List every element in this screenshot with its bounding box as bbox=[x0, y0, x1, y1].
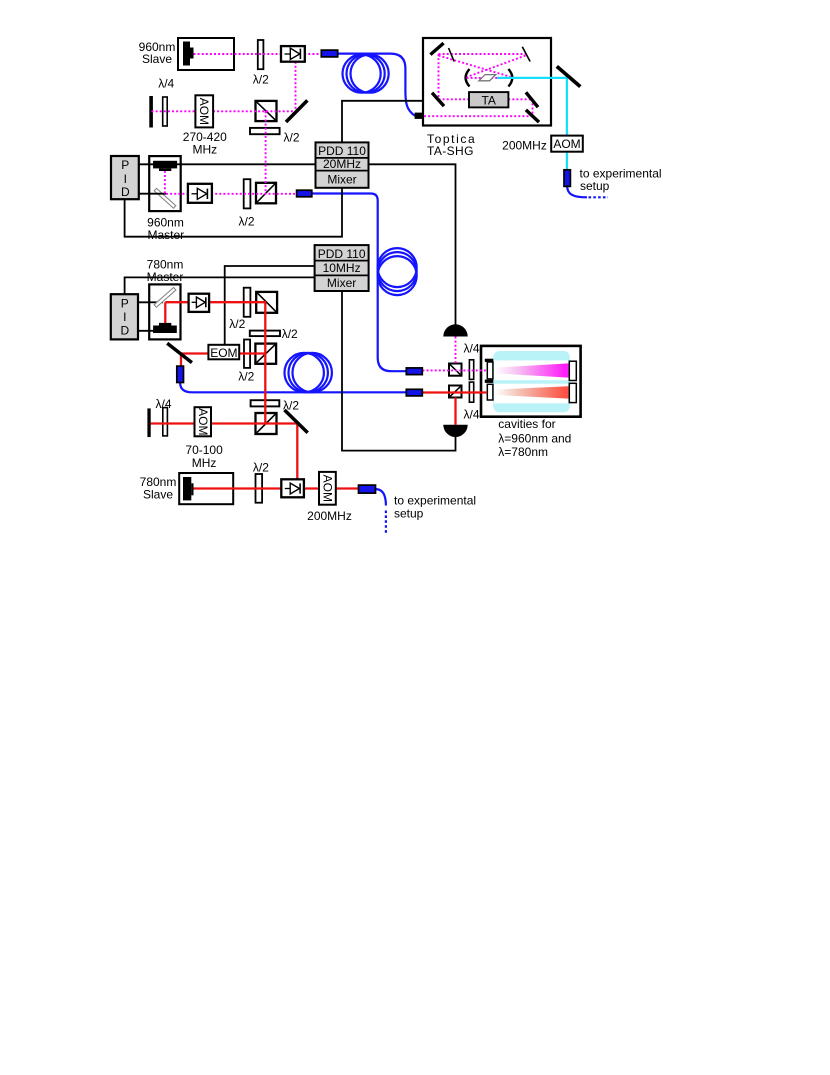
wire PID2 top to PDD2 mixer bbox=[125, 277, 315, 294]
PDD 110 10MHz Mixer module bbox=[315, 245, 369, 291]
cavity mode 780nm bbox=[495, 386, 569, 398]
svg-text:200MHz: 200MHz bbox=[502, 139, 547, 153]
AOM 200MHz 480nm bbox=[551, 136, 583, 152]
beam 780nm to cavity bbox=[422, 391, 487, 393]
waveplate λ/2 slave780 bbox=[256, 474, 263, 503]
svg-text:λ=960nm and: λ=960nm and bbox=[498, 432, 571, 446]
svg-text:PDD 110: PDD 110 bbox=[318, 144, 366, 158]
beamsplitter cube 780nm B bbox=[255, 344, 276, 364]
svg-text:AOM: AOM bbox=[320, 475, 334, 502]
beam 780nm cavity reflection to photodetector bbox=[454, 398, 456, 425]
beam Toptica left vertical bbox=[438, 54, 440, 99]
beam 480nm SHG output bbox=[497, 77, 567, 79]
beam 960nm slave pickoff down bbox=[295, 62, 297, 112]
svg-text:MHz: MHz bbox=[192, 143, 217, 157]
svg-text:I: I bbox=[124, 172, 127, 186]
TA amplifier box bbox=[469, 92, 508, 107]
svg-text:Mixer: Mixer bbox=[327, 276, 356, 290]
svg-text:MHz: MHz bbox=[192, 456, 217, 470]
mirror end 960nm bbox=[149, 96, 153, 128]
svg-text:setup: setup bbox=[394, 507, 424, 521]
svg-text:λ/4: λ/4 bbox=[155, 397, 171, 411]
mirror fold EOM row bbox=[167, 343, 192, 362]
beam Toptica bowtie cross A bbox=[439, 56, 512, 78]
AOM 200MHz 780nm bbox=[319, 472, 336, 505]
svg-text:P: P bbox=[121, 158, 129, 172]
svg-text:cavities for: cavities for bbox=[498, 417, 555, 431]
PDD 110 20MHz Mixer module bbox=[316, 142, 369, 187]
beamsplitter cube 960nm pickoff bbox=[256, 101, 277, 121]
svg-text:λ/4: λ/4 bbox=[463, 341, 479, 355]
svg-text:Slave: Slave bbox=[142, 52, 172, 66]
cavity mode 960nm bbox=[495, 363, 569, 377]
beam 780nm slave row bbox=[193, 487, 359, 489]
beam 780nm master output row bbox=[165, 301, 266, 303]
fiber coupler Toptica input bbox=[415, 113, 424, 119]
laser 780nm Master housing bbox=[149, 284, 180, 339]
svg-text:λ/2: λ/2 bbox=[253, 460, 269, 474]
svg-text:Slave: Slave bbox=[143, 488, 173, 502]
svg-text:D: D bbox=[121, 185, 130, 199]
cavity mirror 960nm right bbox=[569, 361, 576, 380]
svg-text:D: D bbox=[120, 324, 129, 338]
cavity bore 960nm bbox=[494, 360, 568, 380]
svg-text:λ/2: λ/2 bbox=[282, 327, 298, 341]
isolator 960nm master bbox=[188, 184, 212, 203]
beam inside 960nm master laser bbox=[164, 171, 166, 194]
wire overlay to diode 780nm bbox=[149, 330, 156, 332]
cavity housing box bbox=[481, 346, 581, 417]
svg-text:AOM: AOM bbox=[553, 137, 580, 151]
fiber coupler 780nm output bbox=[359, 485, 376, 493]
fiber coupler 480nm output bbox=[564, 170, 570, 187]
mirror Toptica mid-right bbox=[526, 92, 538, 107]
waveplate λ/2 horizontal 780nm bbox=[250, 331, 280, 337]
mirror SHG output fold bbox=[557, 66, 581, 86]
beam Toptica TA row bbox=[439, 98, 533, 100]
mirror Toptica bottom-left bbox=[432, 93, 444, 106]
AOM 70-100 MHz bbox=[195, 407, 212, 436]
svg-text:TA-SHG: TA-SHG bbox=[427, 144, 474, 158]
PID 960nm bbox=[111, 156, 139, 199]
fiber coupler cavity 960nm bbox=[406, 368, 422, 375]
waveplate λ/4 cavity 960nm bbox=[469, 360, 473, 380]
fiber coupler 960nm slave bbox=[321, 50, 337, 57]
wire PID1 to laser current and photodetector line bbox=[139, 164, 456, 326]
waveplate λ/2 horizontal 960nm bbox=[250, 128, 280, 134]
svg-text:λ/2: λ/2 bbox=[283, 131, 299, 145]
beam 780nm vertical through splitters bbox=[264, 302, 266, 424]
fiber 960nm master to cavity bbox=[312, 194, 407, 372]
lens Toptica top-left bbox=[449, 48, 455, 62]
waveplate λ/2 horizontal above cube C bbox=[251, 400, 280, 406]
mirror fold injection bbox=[285, 410, 308, 433]
waveplate λ/2 master960 bbox=[244, 179, 251, 208]
beam 960nm slave output bbox=[194, 53, 323, 55]
mirror Toptica low-right bbox=[526, 110, 539, 122]
mount bar bottom bbox=[485, 380, 494, 383]
svg-text:10MHz: 10MHz bbox=[323, 261, 361, 275]
laser 780nm Slave housing bbox=[179, 473, 233, 504]
Toptica TA-SHG box bbox=[423, 38, 551, 126]
waveplate λ/2 master780 bbox=[244, 288, 251, 317]
waveplate λ/4 960nm bbox=[163, 97, 168, 126]
svg-text:setup: setup bbox=[580, 179, 610, 193]
laser diode 780nm slave bbox=[183, 477, 194, 500]
cavity mirror 780nm right bbox=[569, 383, 576, 402]
wire PID2 to diode of 780nm master bbox=[139, 330, 155, 332]
curved mirror left of SHG crystal bbox=[466, 69, 470, 87]
EOM 780nm bbox=[208, 345, 239, 360]
fiber coil 960nm slave bbox=[343, 55, 381, 93]
beamsplitter cube 780nm C bbox=[256, 413, 277, 434]
fiber coil 780nm master bbox=[285, 353, 324, 392]
isolator 780nm master bbox=[189, 294, 210, 312]
laser 960nm Slave housing bbox=[178, 38, 234, 70]
beam Toptica input row bbox=[424, 115, 533, 117]
PID 780nm bbox=[111, 294, 138, 339]
beam Toptica top row bbox=[439, 53, 526, 55]
fiber 780nm slave to experiment bbox=[376, 489, 386, 505]
svg-text:20MHz: 20MHz bbox=[323, 157, 361, 171]
grating 960nm master bbox=[154, 188, 176, 208]
beam 780nm mirror to fiber coupler bbox=[180, 354, 182, 367]
svg-text:λ/2: λ/2 bbox=[283, 399, 299, 413]
grating 780nm master bbox=[154, 288, 176, 308]
lens Toptica top-right bbox=[522, 47, 530, 62]
beam 960nm master output row bbox=[166, 193, 298, 195]
AOM 270-420 MHz bbox=[195, 95, 213, 127]
wire overlay into 960nm master bbox=[149, 163, 182, 165]
beam 480nm to AOM and fiber bbox=[566, 78, 568, 170]
fiber 480nm to experiment bbox=[567, 186, 587, 197]
beam 960nm vertical to master combiner bbox=[265, 111, 267, 194]
photodetector 960nm cavity bbox=[443, 324, 467, 336]
laser diode 960nm slave bbox=[183, 42, 194, 66]
svg-text:λ/2: λ/2 bbox=[253, 73, 269, 87]
svg-text:Master: Master bbox=[147, 228, 184, 242]
beam 780nm injection vertical bbox=[296, 424, 298, 489]
beam inside 780nm master laser bbox=[164, 302, 166, 325]
waveplate λ/4 cavity 780nm bbox=[469, 382, 473, 402]
svg-text:λ/2: λ/2 bbox=[238, 370, 254, 384]
wire overlay to grating 960nm bbox=[149, 193, 167, 195]
cavity bore 780nm bbox=[494, 384, 568, 404]
waveplate λ/2 slave960 bbox=[258, 40, 264, 69]
wire overlay to grating 780nm bbox=[149, 301, 164, 303]
beam 780nm EOM row bbox=[181, 352, 266, 354]
beam Toptica bowtie cross B bbox=[467, 56, 526, 78]
svg-text:λ=780nm: λ=780nm bbox=[498, 445, 548, 459]
svg-text:Master: Master bbox=[147, 270, 184, 284]
wire PDD2 mixer to photodetector 780 bbox=[342, 291, 456, 451]
svg-text:to experimental: to experimental bbox=[394, 494, 476, 508]
svg-text:AOM: AOM bbox=[197, 98, 211, 125]
wire PID1 bottom to PDD1 mixer output bbox=[125, 188, 342, 237]
curved mirror right of SHG crystal bbox=[508, 69, 512, 87]
beam 960nm to cavity bbox=[422, 369, 487, 371]
svg-text:Mixer: Mixer bbox=[327, 172, 356, 186]
isolator 780nm slave bbox=[281, 479, 304, 497]
fiber coupler cavity 780nm bbox=[406, 389, 422, 396]
svg-text:AOM: AOM bbox=[196, 408, 210, 435]
svg-text:TA: TA bbox=[481, 93, 495, 107]
beamsplitter cube cavity 960nm bbox=[449, 364, 462, 376]
fiber 780nm master to cavity bbox=[180, 383, 406, 393]
photodetector 780nm cavity bbox=[443, 425, 467, 437]
mirror end 780nm bbox=[147, 408, 150, 437]
svg-text:λ/2: λ/2 bbox=[238, 215, 254, 229]
svg-text:λ/2: λ/2 bbox=[229, 317, 245, 331]
beamsplitter cube master960 bbox=[256, 183, 276, 204]
cavity mirror 960nm left bbox=[487, 362, 493, 379]
wire PID1 to grating of 960nm master bbox=[139, 193, 166, 195]
cavity spacer cyan block bbox=[493, 351, 570, 412]
waveplate λ/4 780nm bbox=[163, 408, 168, 436]
wire PID2 to grating of 780nm master bbox=[139, 301, 160, 303]
svg-text:λ/4: λ/4 bbox=[158, 77, 174, 91]
beam 960nm AOM double-pass row bbox=[152, 110, 297, 112]
svg-text:λ/4: λ/4 bbox=[463, 407, 479, 421]
fiber 480nm dashed end bbox=[589, 196, 609, 198]
wire EOM to PDD2 10MHz bbox=[225, 266, 315, 345]
cavity mirror 780nm left bbox=[487, 384, 493, 400]
fiber 780nm dashed end bbox=[385, 511, 387, 536]
fiber coupler 960nm master bbox=[297, 190, 312, 197]
waveplate λ/2 before cube B bbox=[244, 340, 250, 368]
svg-text:P: P bbox=[121, 296, 129, 310]
svg-text:PDD 110: PDD 110 bbox=[318, 247, 366, 261]
wire Toptica to PDD1 top bbox=[342, 101, 423, 143]
beam 780nm AOM double-pass row bbox=[151, 422, 298, 424]
mirror fold 960nm bbox=[286, 100, 307, 122]
laser diode 960nm master bbox=[153, 161, 177, 171]
SHG crystal bbox=[479, 75, 496, 81]
fiber coil 960nm master bbox=[378, 248, 417, 287]
laser 960nm Master housing bbox=[149, 156, 181, 211]
beam 960nm cavity reflection to photodetector bbox=[455, 337, 457, 365]
svg-text:EOM: EOM bbox=[210, 346, 237, 360]
mount bar top bbox=[485, 359, 494, 362]
svg-text:200MHz: 200MHz bbox=[307, 509, 352, 523]
laser diode 780nm master bbox=[153, 323, 177, 333]
beamsplitter cube cavity 780nm bbox=[449, 386, 462, 398]
isolator 960nm slave bbox=[281, 46, 305, 62]
fiber 960nm slave to Toptica bbox=[338, 54, 415, 116]
beam Toptica through crystal bbox=[467, 77, 511, 79]
mirror Toptica top-left bbox=[430, 43, 443, 55]
beam Toptica right fold bbox=[532, 99, 534, 116]
svg-text:I: I bbox=[123, 310, 126, 324]
fiber coupler 780nm master bbox=[177, 366, 184, 382]
beamsplitter cube 780nm A bbox=[256, 292, 277, 313]
